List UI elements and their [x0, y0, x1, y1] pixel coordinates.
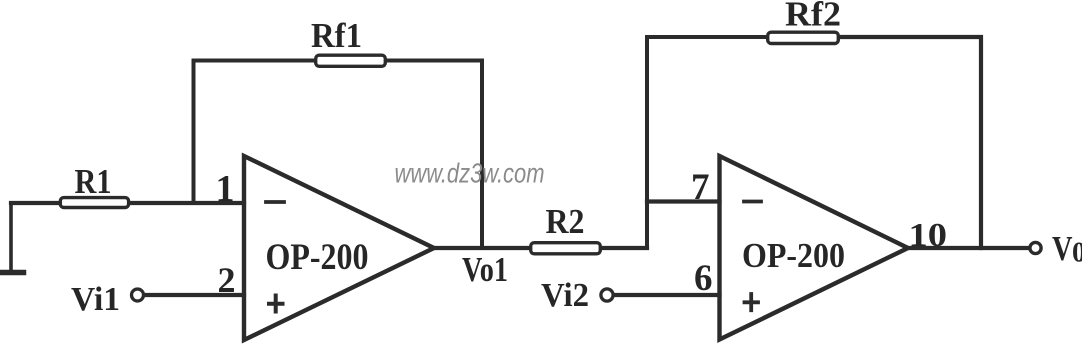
svg-text:7: 7 — [691, 167, 710, 208]
svg-text:Rf1: Rf1 — [311, 16, 362, 55]
svg-text:1: 1 — [216, 168, 235, 210]
svg-text:OP-200: OP-200 — [266, 237, 369, 278]
svg-text:6: 6 — [694, 258, 713, 299]
svg-text:V: V — [1052, 229, 1073, 268]
svg-text:2: 2 — [218, 260, 236, 300]
svg-text:www.dz3w.com: www.dz3w.com — [395, 158, 545, 189]
svg-text:10: 10 — [909, 217, 948, 254]
svg-text:OP-200: OP-200 — [742, 236, 845, 275]
svg-text:R2: R2 — [546, 202, 585, 241]
svg-text:Vo1: Vo1 — [462, 250, 508, 289]
svg-text:R1: R1 — [75, 162, 112, 201]
svg-text:Rf2: Rf2 — [785, 0, 841, 34]
svg-text:Vi2: Vi2 — [541, 277, 589, 314]
svg-text:Vi1: Vi1 — [71, 281, 120, 318]
svg-text:0: 0 — [1072, 238, 1082, 269]
